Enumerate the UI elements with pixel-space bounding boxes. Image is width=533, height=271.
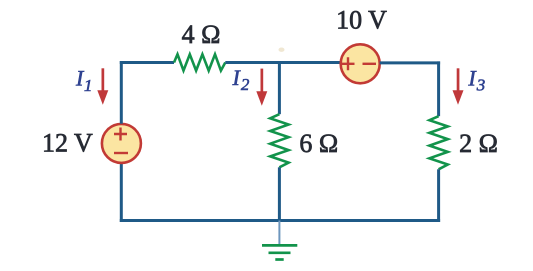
- resistor 2ohm: [429, 116, 447, 169]
- ground: [262, 245, 297, 259]
- resistor 6ohm: [270, 114, 288, 167]
- U1 minus sign: [114, 152, 128, 154]
- current arrow I3: [453, 68, 464, 105]
- svg-text:I1: I1: [75, 66, 92, 95]
- current arrow I1: [97, 68, 108, 105]
- wire right lower: [437, 169, 440, 222]
- resistor 4ohm: [174, 54, 225, 70]
- wire right upper: [437, 61, 440, 116]
- ground stem wire: [278, 221, 280, 245]
- wire top-left segment: [121, 61, 174, 63]
- voltage source U2 10V: [341, 44, 380, 83]
- node speck: [279, 48, 285, 52]
- svg-text:I3: I3: [467, 66, 485, 95]
- current arrow I2: [256, 69, 267, 106]
- U2 plus sign: [342, 57, 355, 70]
- svg-text:4 Ω: 4 Ω: [182, 20, 221, 49]
- wire left lower: [120, 163, 123, 222]
- wire middle lower: [278, 167, 281, 222]
- voltage source U1 12V: [102, 124, 141, 163]
- wire middle upper: [278, 61, 281, 114]
- wire bottom: [120, 219, 440, 222]
- wire top-middle segment: [225, 61, 341, 64]
- U1 plus sign: [114, 128, 127, 141]
- U2 minus sign: [363, 63, 377, 65]
- svg-text:10 V: 10 V: [336, 6, 387, 35]
- svg-text:6 Ω: 6 Ω: [299, 129, 338, 158]
- wire top-right segment: [380, 61, 440, 64]
- wire left upper: [120, 61, 123, 124]
- svg-text:12 V: 12 V: [42, 129, 93, 158]
- svg-text:I2: I2: [232, 65, 250, 94]
- svg-text:2 Ω: 2 Ω: [459, 129, 498, 158]
